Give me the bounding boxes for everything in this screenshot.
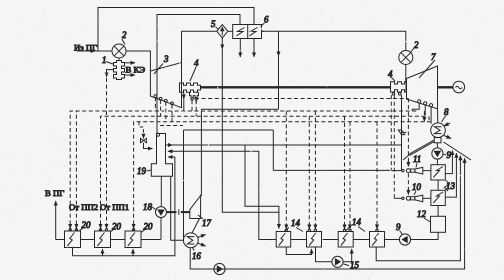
wire condensate branch to LPH1 <box>245 145 279 212</box>
HP extraction drop 1 <box>154 97 156 111</box>
ejector cooler 13b <box>431 190 445 205</box>
svg-text:17: 17 <box>202 218 211 228</box>
label 20 c <box>141 222 153 233</box>
svg-text:20: 20 <box>112 222 121 232</box>
HPH1 drain <box>72 248 74 256</box>
wire valve2R to gland 4R <box>405 65 407 82</box>
wire branch horizontal y=109.3 <box>201 109 278 196</box>
HP extraction drop 2 <box>160 100 162 116</box>
label 4 right <box>388 69 395 81</box>
svg-text:19: 19 <box>137 166 146 176</box>
wire loop right to ejectors <box>273 169 391 171</box>
wire 13b to 12 <box>437 206 439 217</box>
gland 4R lower circles <box>392 93 395 96</box>
separator 5 <box>217 25 228 38</box>
svg-text:6: 6 <box>264 15 269 25</box>
label 3 <box>154 54 169 74</box>
bus gland <box>195 98 408 100</box>
gland condenser 16 <box>183 233 198 248</box>
LPH2 drain to pump15 <box>316 247 332 262</box>
hotwell box <box>434 138 441 143</box>
LP extraction circle a <box>418 100 421 103</box>
svg-text:20: 20 <box>82 220 91 230</box>
label 7 <box>419 52 436 78</box>
LP extraction drop a <box>412 103 419 111</box>
ejector steam arrow a <box>407 160 409 167</box>
wire valve2 to HP turbine inlet <box>126 51 150 71</box>
bus 3 <box>134 122 432 231</box>
label 8 <box>442 107 450 122</box>
svg-text:3: 3 <box>163 54 169 64</box>
label 5 <box>211 19 219 30</box>
svg-text:1: 1 <box>102 55 106 65</box>
svg-text:4: 4 <box>194 58 199 68</box>
drain pump after 16 <box>214 263 225 274</box>
LP extraction drop c <box>430 107 432 122</box>
wire deaerator out to ejector feed <box>173 145 402 146</box>
gland stem 1 <box>114 61 125 80</box>
label 19 <box>137 166 151 176</box>
wire separator drain to LPH1 <box>222 49 279 229</box>
svg-text:4: 4 <box>388 69 393 79</box>
drain pump 15 <box>332 256 343 267</box>
shaft LP to generator <box>438 86 454 88</box>
label 16 <box>192 248 201 262</box>
drive turbine 17 <box>190 196 201 219</box>
LP turbine 7 <box>407 66 438 109</box>
gland 4L drain arrow <box>183 92 185 99</box>
gland 4L drain dashed a <box>191 100 193 103</box>
HP extraction circles <box>154 95 157 98</box>
svg-text:2: 2 <box>414 40 419 50</box>
wire 12 to pump 9 bottom <box>411 232 439 239</box>
condenser cw arrow in <box>444 123 450 126</box>
gland 4L lower circles <box>191 98 193 100</box>
feedwater to SG riser <box>55 201 57 240</box>
dashed drop to condenser b <box>428 116 430 122</box>
LPH1 drain cascade <box>286 247 311 255</box>
valve 2 left <box>112 44 126 58</box>
wire ejector11 suction <box>391 170 401 172</box>
label 10 <box>412 182 421 195</box>
wire riser to top bypass y=7 <box>98 8 254 52</box>
LPH top flange circles <box>285 229 287 231</box>
wire stem drain left <box>107 70 114 77</box>
wire ejector11 to 13a <box>423 170 431 172</box>
HP turbine 3 <box>150 63 181 108</box>
label 11 <box>413 154 421 168</box>
wire 13a to 13b <box>437 180 439 190</box>
pump 9 bottom <box>399 234 410 245</box>
wire ejector10 suction <box>394 197 401 199</box>
wire 16 inlet vertical <box>171 176 184 240</box>
condensate line through LPH <box>291 239 370 241</box>
LPH top entry arrows <box>286 226 377 230</box>
svg-text:В КЭ: В КЭ <box>126 65 146 75</box>
recirc riser c from LPH4 drain <box>376 156 460 261</box>
label 14 b <box>345 217 365 232</box>
label 20 a <box>79 220 91 231</box>
label 4 left <box>190 58 199 81</box>
wire pump15 to LPH3 <box>343 249 352 262</box>
LP drop c to condenser dashed <box>430 122 432 124</box>
HP extraction drop 3 <box>165 102 167 122</box>
label 17 <box>198 215 211 228</box>
label 9 top <box>443 150 451 160</box>
ejector steam arrow b <box>407 188 409 195</box>
svg-text:18: 18 <box>143 202 152 212</box>
label 14 a <box>284 218 303 232</box>
svg-text:14: 14 <box>291 218 300 228</box>
valve 2 right <box>399 51 413 65</box>
wire main steam from SG y=51 <box>77 50 95 52</box>
HPH drain riser <box>73 157 175 256</box>
reheater cell1 drain arrow <box>239 39 241 58</box>
turbine 17 exhaust <box>192 219 200 234</box>
wire deaerator to feed pump 18 <box>160 176 162 206</box>
svg-text:10: 10 <box>412 182 421 192</box>
wire reheat branch to turbine 17 <box>278 31 280 109</box>
LPH drop x309 <box>308 116 310 230</box>
shaft HP to LP <box>201 86 391 88</box>
LP extraction circle b <box>424 102 427 105</box>
gland drop a <box>191 100 193 111</box>
ejector cooler 13a <box>431 165 445 180</box>
wire stem drain dashed down to HPH2 <box>106 78 108 230</box>
label 2 left <box>122 30 127 45</box>
16 outlet arrow up <box>198 235 206 238</box>
ejector steam dashed supply <box>407 99 409 192</box>
bus 1 <box>70 111 417 231</box>
deaerator steam valve bowtie <box>141 135 153 149</box>
wire hotwell slant to ejector line <box>403 140 434 160</box>
wire valve2 down to stem 1 <box>118 58 120 61</box>
label 15 <box>344 260 360 270</box>
HP exhaust riser to y=31 <box>181 31 183 62</box>
deaerator column 19 <box>151 133 172 176</box>
label 13 <box>444 181 455 192</box>
feedwater line through HPH <box>56 218 161 240</box>
16 outlet arrow down <box>198 243 206 246</box>
deaerator inlet from LPH condensate <box>168 150 176 152</box>
bus 2 <box>101 116 426 231</box>
label 1 <box>102 55 113 65</box>
wire loop top <box>184 129 274 131</box>
label 2 right <box>411 40 420 53</box>
deaerator supply valve xi <box>398 95 406 171</box>
wire loop down <box>272 130 274 170</box>
extraction dashed buses <box>70 97 431 231</box>
wire 16 bottom to drain pump <box>190 248 214 269</box>
label 12 <box>417 209 431 222</box>
separator drain arrow <box>221 38 223 49</box>
gland block 4 right <box>391 82 407 92</box>
gland 4 left lower step <box>190 92 199 97</box>
HPH1 drop b <box>75 111 77 231</box>
box 12 <box>431 216 446 232</box>
gland 4R suction dashed b <box>393 95 395 198</box>
svg-text:Из ПГ: Из ПГ <box>74 43 97 53</box>
gland 4R suction dashed a <box>390 95 392 171</box>
reheater 6 box <box>233 25 262 39</box>
svg-text:2: 2 <box>122 30 127 40</box>
gland drop b <box>195 100 197 116</box>
LPH drop x315 <box>314 111 316 230</box>
generator <box>453 81 465 93</box>
wire second bypass y=14 <box>157 15 240 135</box>
label 6 <box>261 15 270 27</box>
wire to KE arrow upper <box>125 62 136 64</box>
svg-text:От ПП2: От ПП2 <box>69 202 98 212</box>
wire to KE arrow lower <box>125 74 136 76</box>
svg-text:9: 9 <box>447 150 452 160</box>
ejector 10 <box>402 195 423 202</box>
HPH3 drain arrow <box>132 249 134 256</box>
ejector 11 <box>402 167 423 174</box>
deaerator inlet from HPH drains <box>168 156 175 158</box>
svg-text:8: 8 <box>444 107 449 117</box>
svg-text:11: 11 <box>413 154 421 164</box>
wire dashed stub above deaerator <box>160 125 183 127</box>
svg-text:20: 20 <box>144 222 153 232</box>
LPH drop x344 <box>344 116 346 230</box>
dashed drop to condenser a <box>423 111 425 122</box>
recirc riser d from gland condenser line <box>190 158 464 269</box>
wire separator to reheater <box>228 30 233 32</box>
svg-text:16: 16 <box>192 251 201 261</box>
wire main steam y=31 to separator <box>182 30 217 32</box>
svg-text:7: 7 <box>431 52 436 62</box>
svg-text:9: 9 <box>396 222 401 232</box>
gland 4L drain dashed b <box>195 100 197 103</box>
svg-text:5: 5 <box>211 19 216 29</box>
wire hot reheat y=31 to valve 2 right <box>262 31 406 50</box>
wire LP exhaust to condenser <box>437 109 439 123</box>
recirc riser b from 13b <box>445 153 456 197</box>
label 18 <box>143 202 156 212</box>
label 9 bottom <box>396 222 403 235</box>
HPH2 drain arrow <box>102 249 104 256</box>
condenser dump slant <box>444 142 472 160</box>
HP extraction drop 4 <box>171 105 173 122</box>
wire hotwell to pump 9 <box>436 143 438 148</box>
LPH drop x286 <box>285 111 287 230</box>
gland block 4 left <box>180 83 201 92</box>
pump 9 top <box>432 148 443 159</box>
feed pump 18 <box>156 207 167 218</box>
wire LPH condensate riser <box>176 151 276 239</box>
reheater cell2 drain arrow <box>253 39 255 58</box>
shaft pump18 to turbine 17 <box>167 209 190 215</box>
dashed feed to deaerator valve <box>139 122 144 134</box>
label 20 b <box>110 222 121 233</box>
HPH 20 boxes <box>65 231 142 248</box>
deaerator outlet arrow right <box>166 144 173 146</box>
LP extraction drop b <box>424 105 426 116</box>
LP extraction circle c <box>430 104 433 107</box>
wire pump9 to ejector cooler 13a <box>436 159 438 165</box>
LPH drop x350 <box>349 122 351 230</box>
recirc riser a from 13a <box>445 151 452 174</box>
wire pump9b to LPH4 <box>385 239 400 241</box>
HPH top entry arrows <box>70 225 133 228</box>
svg-text:От ПП1: От ПП1 <box>100 202 129 212</box>
wire ejector10 to 13b <box>423 197 431 199</box>
condenser 8 <box>431 123 446 138</box>
LPH 14 boxes <box>276 232 384 248</box>
svg-text:12: 12 <box>417 209 426 219</box>
LPH drop x374 <box>376 122 378 230</box>
svg-text:14: 14 <box>352 217 361 227</box>
svg-text:В ПГ: В ПГ <box>45 188 64 198</box>
wire big condensate loop <box>183 130 185 240</box>
condenser cw arrow out <box>444 136 451 139</box>
arrow on branch <box>278 46 280 56</box>
HPH top flange circles <box>69 229 71 231</box>
